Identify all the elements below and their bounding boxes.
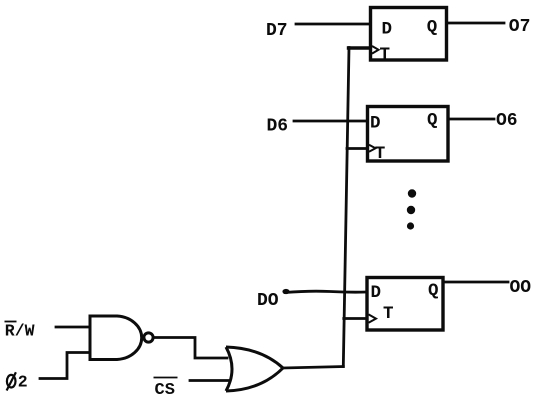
svg-text:T: T xyxy=(375,144,386,164)
svg-text:D7: D7 xyxy=(266,21,288,41)
svg-text:T: T xyxy=(380,45,391,65)
svg-text:D: D xyxy=(370,114,381,134)
svg-text:R/W: R/W xyxy=(5,322,35,341)
svg-text:O7: O7 xyxy=(509,17,531,37)
svg-text:OO: OO xyxy=(510,278,532,298)
svg-text:O6: O6 xyxy=(496,111,518,131)
svg-text:D6: D6 xyxy=(267,117,289,137)
svg-text:T: T xyxy=(383,304,394,324)
svg-text:D: D xyxy=(371,283,382,303)
svg-text:Q: Q xyxy=(427,111,438,131)
svg-text:Q: Q xyxy=(427,18,438,38)
svg-text:CS: CS xyxy=(155,381,175,400)
svg-text:D: D xyxy=(382,19,393,39)
svg-text:DO: DO xyxy=(257,291,279,311)
svg-text:Q: Q xyxy=(428,281,439,301)
svg-text:2: 2 xyxy=(18,373,28,392)
